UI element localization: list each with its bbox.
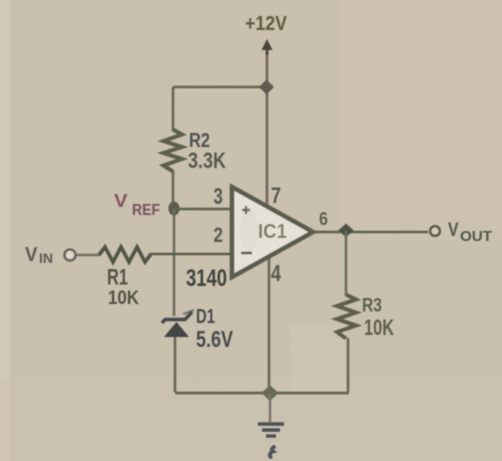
ground stub (269, 393, 271, 422)
resistor R1 (99, 247, 151, 262)
terminal VIN circle (65, 250, 76, 261)
wire: VREF down to zener (173, 209, 176, 316)
wire: VREF to pin 3 (174, 208, 231, 211)
resistor R2 (164, 130, 183, 172)
resistor R3 (337, 295, 356, 339)
wire: +12V vertical drop to op-amp pin 7 (266, 50, 269, 205)
terminal VOUT circle (430, 226, 440, 236)
ground symbol (258, 422, 284, 425)
wire: pin 4 down to bottom rail (268, 258, 271, 393)
+ input sign (242, 206, 250, 214)
stray mark below ground (270, 447, 274, 457)
wire: output pin 6 (313, 231, 428, 234)
node VREF junction dot (168, 202, 179, 216)
- input sign (241, 252, 252, 255)
op-amp IC1 triangle (232, 187, 313, 277)
junction +12V/top rail (259, 80, 274, 95)
wire: left vertical R2 branch upper (172, 87, 175, 131)
wire: bottom rail (175, 392, 349, 395)
wire: zener to bottom rail (174, 337, 177, 392)
wire: VIN to R1 (76, 254, 100, 257)
junction output node (338, 224, 354, 238)
wire: R2 to VREF node (172, 170, 175, 209)
zener diode D1 (162, 312, 192, 323)
wire: R1 to pin 2 (150, 253, 231, 256)
wire: top rail from R2 branch to +12V junction (173, 86, 267, 89)
wire: R3 to bottom rail (347, 338, 350, 392)
wire: R3 branch down from output node (345, 231, 348, 296)
+12V arrow (262, 39, 273, 50)
junction ground node (262, 385, 279, 401)
